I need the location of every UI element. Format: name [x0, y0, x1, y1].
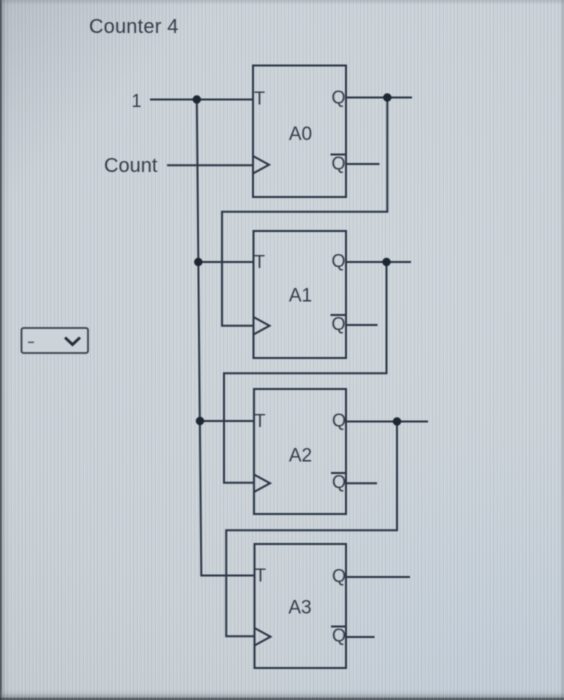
label Count [104, 155, 158, 177]
svg-text:Q: Q [332, 566, 346, 586]
node: junction A1 Q [382, 258, 390, 266]
svg-text:Q: Q [331, 154, 345, 174]
svg-text:1: 1 [131, 91, 141, 111]
svg-text:Q: Q [332, 626, 346, 646]
title Counter 4 [89, 16, 179, 38]
node: junction 1-rail at A1 T [194, 258, 202, 266]
wire: A1 Q down to clock of A2 [224, 262, 387, 483]
wire: Q output stub of A1 [346, 261, 411, 263]
wire: A0 Q down to clock of A1 [222, 98, 387, 326]
node: junction 1-rail at A2 T [196, 417, 204, 425]
wire: Q output stub of A2 [346, 421, 428, 423]
svg-text:T: T [255, 566, 266, 586]
svg-text:A1: A1 [289, 286, 312, 307]
node: junction A0 Q [383, 93, 391, 101]
wire: rail to T of A2 [200, 420, 254, 422]
svg-text:Q: Q [331, 314, 345, 334]
svg-text:T: T [254, 89, 265, 109]
wire: A2 Q down to clock of A3 [226, 422, 397, 637]
wire: vertical 1-rail down to T of A3 [197, 100, 255, 576]
svg-text:A0: A0 [289, 124, 312, 145]
wire: Q output of A3 [346, 576, 410, 578]
wire: Qbar output stub of A1 [346, 324, 378, 326]
wire: Qbar output stub of A2 [346, 482, 377, 484]
wire: Q output stub of A0 [346, 97, 412, 99]
flip-flop A3 box [255, 544, 348, 668]
svg-text:Q: Q [331, 88, 345, 108]
svg-text:Counter 4: Counter 4 [89, 16, 179, 38]
svg-text:Q: Q [332, 411, 346, 431]
node: junction A2 Q [393, 417, 401, 425]
wire: rail to T of A1 [198, 261, 253, 263]
svg-text:Q: Q [332, 472, 346, 492]
wire: Qbar output stub of A0 [346, 163, 380, 165]
node: junction 1-rail at A0 T [193, 95, 201, 103]
label 1 (constant input) [131, 91, 141, 111]
svg-text:Q: Q [331, 251, 345, 271]
wire: 1 input to T of A0 [150, 99, 253, 101]
flip-flop A0 box [253, 66, 347, 198]
svg-text:T: T [254, 252, 265, 272]
svg-text:A3: A3 [288, 598, 311, 619]
wire: Qbar output stub of A3 [346, 636, 375, 638]
wire: Count input to clock of A0 [167, 164, 253, 166]
svg-text:A2: A2 [289, 446, 312, 467]
flip-flop A2 box [254, 389, 347, 514]
dropdown select box [22, 328, 89, 353]
svg-text:T: T [255, 411, 266, 431]
svg-text:Count: Count [104, 155, 158, 177]
flip-flop A1 box [254, 231, 347, 358]
